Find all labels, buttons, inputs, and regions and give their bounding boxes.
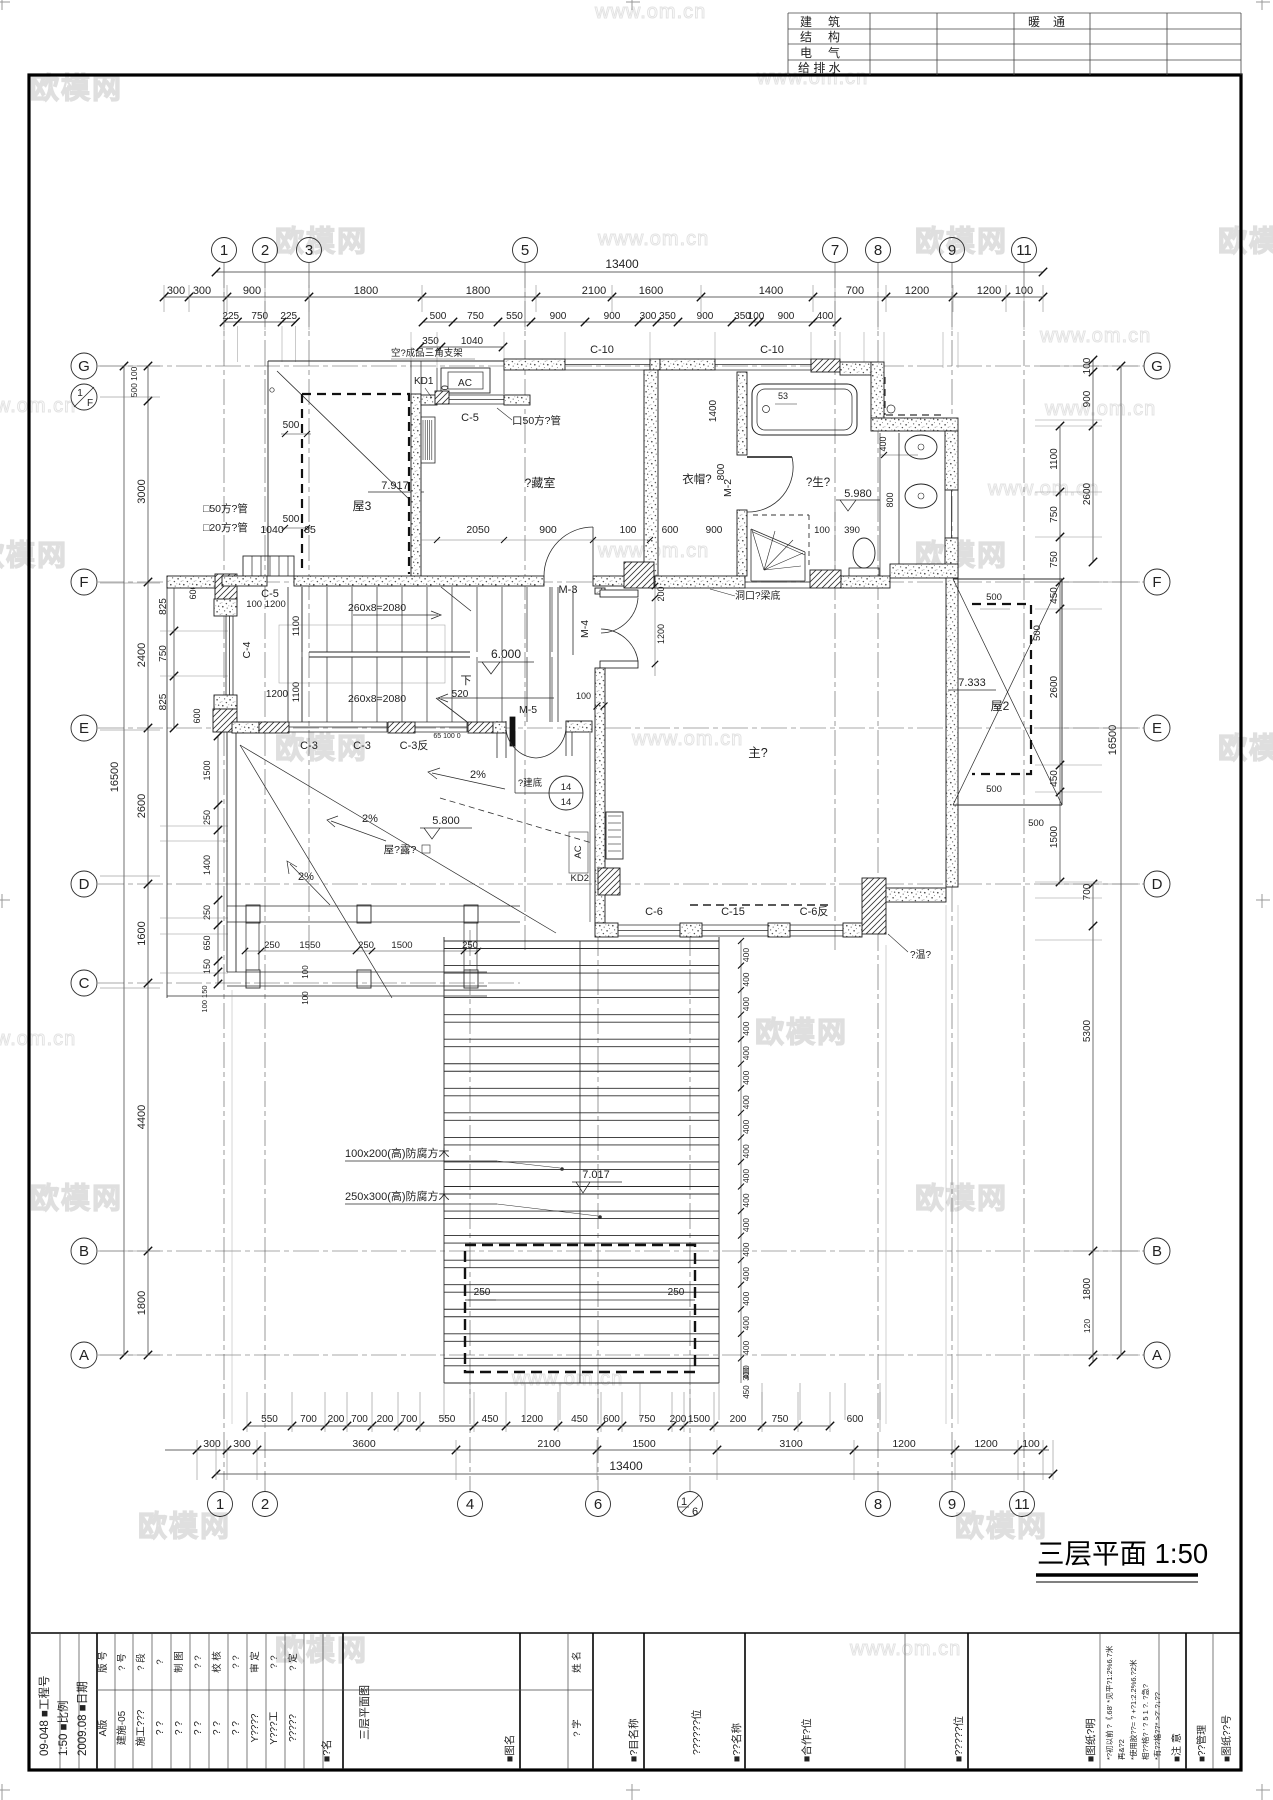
svg-text:9: 9	[948, 242, 956, 259]
svg-text:www.om.cn: www.om.cn	[1044, 398, 1156, 420]
svg-text:2100: 2100	[582, 285, 606, 297]
svg-text:??????位: ??????位	[690, 1709, 703, 1755]
slope arrows and labels	[432, 773, 505, 789]
pier at corridor junction	[624, 562, 654, 588]
svg-text:? ?: ? ?	[193, 1655, 204, 1668]
svg-text:8: 8	[874, 1496, 882, 1513]
svg-text:1:50 ■比例: 1:50 ■比例	[56, 1700, 70, 1756]
svg-text:1100: 1100	[1049, 448, 1060, 470]
svg-text:1100: 1100	[291, 616, 302, 636]
svg-text:7.333: 7.333	[958, 677, 986, 689]
left detail chain	[173, 582, 175, 728]
svg-text:洞口?梁底: 洞口?梁底	[735, 589, 781, 602]
deck 400 dimension chain	[740, 940, 742, 1383]
svg-text:300: 300	[233, 1438, 251, 1450]
svg-text:400: 400	[741, 1144, 751, 1158]
svg-text:? 号: ? 号	[117, 1653, 128, 1670]
svg-text:欧模网: 欧模网	[138, 1510, 231, 1543]
bay lower spandrel	[214, 695, 237, 709]
terrace inner corner lines	[514, 731, 516, 793]
dashed line south	[690, 904, 830, 906]
svg-text:? ?: ? ?	[193, 1721, 204, 1735]
svg-text:500: 500	[986, 592, 1002, 603]
svg-text:390: 390	[844, 525, 860, 536]
basins	[905, 435, 937, 459]
svg-text:100 150: 100 150	[200, 985, 209, 1012]
svg-text:250x300(高)防腐方木: 250x300(高)防腐方木	[345, 1189, 450, 1203]
svg-text:09-048 ■工程号: 09-048 ■工程号	[38, 1676, 51, 1756]
svg-text:■?目名称: ■?目名称	[627, 1718, 640, 1762]
svg-text:225: 225	[280, 311, 297, 322]
shower dashed opening	[753, 514, 809, 516]
bottom dimension detail row	[247, 1425, 830, 1427]
upper band wall with C-10 window left	[504, 359, 565, 370]
svg-text:65 100 0: 65 100 0	[433, 733, 460, 740]
axis bubble 1/6 bottom	[678, 1492, 703, 1517]
svg-text:250: 250	[202, 905, 212, 920]
svg-text:550: 550	[261, 1414, 278, 1425]
bay upper spandrel	[214, 599, 237, 616]
master south wall east段	[886, 888, 946, 902]
svg-text:KD2: KD2	[571, 873, 589, 884]
svg-text:C-15: C-15	[721, 906, 745, 918]
svg-text:400: 400	[741, 1218, 751, 1232]
stair break line	[441, 587, 471, 611]
svg-text:13400: 13400	[609, 1459, 643, 1473]
svg-text:筑: 筑	[828, 14, 840, 29]
svg-text:M-5: M-5	[519, 704, 537, 716]
svg-text:2600: 2600	[1082, 482, 1093, 505]
AC unit KD2	[606, 812, 623, 859]
svg-text:欧模网: 欧模网	[1218, 732, 1273, 765]
svg-text:85: 85	[304, 524, 316, 536]
svg-text:结: 结	[800, 30, 812, 44]
master west wall upper	[595, 588, 605, 594]
left storey dimension chain	[147, 366, 149, 1355]
svg-text:B: B	[1152, 1243, 1162, 1260]
svg-text:100: 100	[748, 311, 765, 322]
basin room east wall	[945, 431, 958, 490]
svg-text:13400: 13400	[605, 257, 639, 271]
svg-text:1500: 1500	[391, 940, 412, 951]
svg-text:200: 200	[328, 1414, 345, 1425]
axis bubbles top	[212, 238, 237, 263]
M-4 dims 200 1200	[654, 580, 656, 676]
row2 extension stubs	[223, 326, 225, 362]
svg-text:给 排 水: 给 排 水	[798, 61, 841, 75]
roof terrace 2 dashed rect	[972, 604, 1031, 774]
svg-text:550: 550	[439, 1414, 456, 1425]
svg-text:欧模网: 欧模网	[955, 1510, 1048, 1543]
svg-text:A: A	[79, 1347, 89, 1364]
svg-text:750: 750	[1049, 551, 1060, 568]
svg-text:欧模网: 欧模网	[1218, 225, 1273, 258]
svg-text:550: 550	[506, 311, 523, 322]
svg-text:■注 意: ■注 意	[1170, 1733, 1183, 1762]
svg-text:5: 5	[521, 242, 529, 259]
svg-text:260x8=2080: 260x8=2080	[348, 602, 406, 614]
svg-text:400: 400	[741, 1070, 751, 1084]
svg-text:C: C	[79, 975, 90, 992]
svg-text:400: 400	[741, 1340, 751, 1354]
top wall extension stubs	[410, 332, 412, 368]
svg-text:250: 250	[202, 810, 212, 825]
svg-text:屋2: 屋2	[991, 699, 1010, 713]
svg-text:C-6: C-6	[645, 906, 663, 918]
svg-text:400: 400	[741, 1021, 751, 1035]
stairwell side line	[572, 587, 574, 655]
svg-text:400: 400	[741, 948, 751, 962]
svg-text:AC: AC	[573, 845, 584, 858]
svg-text:通: 通	[1053, 15, 1065, 29]
svg-text:11: 11	[1014, 1496, 1030, 1513]
svg-text:400: 400	[741, 1169, 751, 1183]
svg-text:欧模网: 欧模网	[0, 539, 68, 572]
svg-text:C-3: C-3	[300, 740, 318, 752]
bottom dimension row 2	[165, 1449, 1049, 1451]
top dimension row 1	[164, 296, 1043, 298]
svg-text:6: 6	[594, 1496, 602, 1513]
svg-text:■??名称: ■??名称	[730, 1722, 743, 1762]
stair right boundary	[549, 587, 551, 722]
svg-text:*使用胶??= ? +?1:2.2%6.?2米: *使用胶??= ? +?1:2.2%6.?2米	[1128, 1659, 1138, 1760]
svg-text:700: 700	[351, 1414, 368, 1425]
svg-text:400: 400	[741, 997, 751, 1011]
svg-text:350: 350	[422, 336, 439, 347]
terrace parapet upper band	[227, 905, 520, 907]
door M-4 double	[600, 590, 638, 597]
svg-text:2: 2	[261, 1496, 269, 1513]
svg-text:C-3反: C-3反	[400, 739, 429, 752]
section marker 14/14	[549, 776, 583, 810]
svg-text:? 字: ? 字	[571, 1719, 583, 1736]
AC unit on bracket	[441, 368, 490, 393]
bay pier upper	[215, 574, 237, 602]
svg-text:建: 建	[800, 15, 812, 29]
svg-text:F: F	[1152, 574, 1161, 591]
svg-text:200: 200	[730, 1414, 747, 1425]
svg-text:■图纸??号: ■图纸??号	[1220, 1715, 1233, 1762]
svg-text:□50方?管: □50方?管	[203, 502, 248, 515]
svg-text:Y???工: Y???工	[269, 1711, 280, 1744]
svg-text:3000: 3000	[136, 479, 148, 503]
svg-text:5.800: 5.800	[432, 815, 460, 827]
svg-text:1500: 1500	[688, 1414, 711, 1425]
svg-text:1800: 1800	[466, 285, 490, 297]
svg-text:? 段: ? 段	[135, 1653, 147, 1671]
plan bottom extension stubs	[443, 1383, 445, 1420]
svg-text:1100: 1100	[291, 682, 302, 702]
right detail chain	[1059, 426, 1061, 882]
svg-text:? ?: ? ?	[155, 1721, 166, 1735]
svg-text:C-4: C-4	[241, 641, 253, 658]
svg-text:?: ?	[155, 1659, 166, 1664]
svg-text:2400: 2400	[136, 643, 148, 667]
terrace eave line	[167, 995, 487, 997]
svg-text:E: E	[79, 720, 89, 737]
svg-text:500: 500	[986, 784, 1002, 795]
svg-text:?温?: ?温?	[910, 949, 932, 961]
svg-text:100: 100	[301, 965, 310, 979]
svg-text:校 核: 校 核	[211, 1651, 223, 1673]
svg-text:制 图: 制 图	[173, 1651, 185, 1673]
svg-text:5.980: 5.980	[844, 488, 872, 500]
svg-text:100: 100	[301, 991, 310, 1005]
svg-text:100: 100	[1022, 1438, 1040, 1450]
svg-text:450: 450	[742, 1385, 751, 1399]
svg-text:800: 800	[885, 492, 895, 507]
KD1 block	[435, 391, 449, 404]
svg-text:www.om.cn: www.om.cn	[0, 395, 76, 417]
svg-text:D: D	[79, 876, 90, 893]
svg-text:2%: 2%	[298, 871, 314, 883]
svg-text:欧模网: 欧模网	[30, 72, 123, 105]
svg-text:1200: 1200	[892, 1438, 916, 1450]
svg-text:450: 450	[482, 1414, 499, 1425]
svg-text:□20方?管: □20方?管	[203, 521, 248, 534]
svg-text:口50方?管: 口50方?管	[512, 414, 561, 427]
svg-text:Y????: Y????	[250, 1713, 261, 1742]
svg-text:屋3: 屋3	[353, 499, 372, 513]
svg-text:?建底: ?建底	[518, 777, 543, 789]
svg-text:400: 400	[741, 1046, 751, 1060]
svg-text:700: 700	[401, 1414, 418, 1425]
svg-text:1: 1	[681, 1496, 687, 1508]
svg-text:2600: 2600	[1049, 675, 1060, 698]
svg-text:650: 650	[202, 935, 212, 950]
svg-text:500 100: 500 100	[129, 366, 139, 397]
svg-text:www.om.cn: www.om.cn	[631, 728, 743, 750]
right extension lines	[1040, 365, 1140, 367]
svg-text:? 定: ? 定	[287, 1653, 299, 1671]
svg-text:电: 电	[800, 46, 812, 60]
top dimension row 2	[224, 321, 296, 323]
svg-text:C-3: C-3	[353, 740, 371, 752]
stair landing outline	[279, 625, 445, 683]
tub room east wall	[871, 362, 884, 418]
drawing header table	[788, 12, 1241, 14]
svg-text:主?: 主?	[748, 746, 768, 760]
stair direction arrows	[353, 614, 438, 616]
svg-text:11: 11	[1016, 242, 1032, 259]
svg-text:500: 500	[283, 420, 300, 431]
svg-text:1500: 1500	[1049, 825, 1060, 848]
svg-text:250: 250	[462, 940, 478, 951]
svg-text:AC: AC	[458, 378, 472, 389]
stair left boundary	[287, 587, 289, 722]
svg-text:250: 250	[358, 940, 374, 951]
svg-text:16500: 16500	[109, 762, 121, 793]
svg-text:250: 250	[474, 1287, 491, 1298]
svg-text:700: 700	[846, 285, 864, 297]
bottom extension lines	[246, 1392, 248, 1432]
svg-text:1400: 1400	[708, 399, 719, 422]
svg-text:C-10: C-10	[590, 344, 614, 356]
svg-text:520: 520	[452, 689, 469, 700]
stairs lower flight treads	[301, 657, 303, 722]
svg-text:1550: 1550	[299, 940, 320, 951]
svg-text:再&?2: 再&?2	[1117, 1739, 1126, 1760]
svg-text:750: 750	[639, 1414, 656, 1425]
left wall below E	[226, 732, 228, 972]
svg-text:100: 100	[576, 691, 591, 701]
svg-text:750: 750	[772, 1414, 789, 1425]
svg-text:*有??格??* >?' ?↓??: *有??格??* >?' ?↓??	[1152, 1692, 1162, 1760]
right second chain	[1092, 360, 1094, 562]
svg-text:审 定: 审 定	[249, 1651, 261, 1673]
bottom overall dimension 13400	[216, 1473, 1053, 1475]
svg-text:1200: 1200	[656, 624, 666, 644]
svg-text:? ?: ? ?	[269, 1655, 280, 1668]
stairs upper flight treads	[301, 587, 303, 652]
deck pergola dashed rect	[465, 1245, 695, 1372]
svg-text:A: A	[1152, 1347, 1162, 1364]
toilet	[853, 538, 875, 568]
svg-text:100x200(高)防腐方木: 100x200(高)防腐方木	[345, 1146, 450, 1160]
svg-text:250: 250	[264, 940, 280, 951]
svg-text:1200: 1200	[905, 285, 929, 297]
svg-text:?????: ?????	[288, 1714, 299, 1742]
svg-text:姓 名: 姓 名	[571, 1651, 583, 1673]
long extension line below terrace SW	[231, 990, 233, 1424]
svg-text:8: 8	[874, 242, 882, 259]
svg-text:53: 53	[778, 391, 788, 401]
storage room north wall with C-5 window	[421, 395, 437, 405]
svg-text:7.017: 7.017	[582, 1169, 610, 1181]
deck outline	[443, 937, 445, 1383]
svg-text:2%: 2%	[470, 769, 486, 781]
axis bubble 1/F left	[71, 384, 97, 410]
svg-text:1040: 1040	[461, 336, 484, 347]
svg-text:2600: 2600	[136, 794, 148, 818]
roof terrace 2 diagonals	[953, 579, 1062, 805]
axis bubbles right	[1144, 353, 1170, 379]
svg-text:三层平面图: 三层平面图	[358, 1685, 371, 1740]
svg-text:D: D	[1152, 876, 1163, 893]
left outer vertical edge line	[166, 576, 168, 998]
svg-text:200: 200	[656, 586, 666, 601]
svg-text:400: 400	[878, 436, 888, 451]
svg-text:3: 3	[305, 242, 313, 259]
stair hall walls	[222, 576, 267, 586]
roof3 bay window C-5	[243, 556, 294, 576]
svg-text:施工???: 施工???	[134, 1709, 147, 1746]
svg-text:4400: 4400	[136, 1105, 148, 1129]
frame corner marks	[0, 1, 10, 3]
storage room west wall	[411, 394, 421, 586]
svg-text:下: 下	[461, 675, 472, 687]
svg-text:欧模网: 欧模网	[30, 1182, 123, 1215]
svg-text:7: 7	[831, 242, 839, 259]
svg-text:G: G	[1151, 358, 1163, 375]
svg-text:300: 300	[167, 285, 185, 297]
svg-text:1200: 1200	[974, 1438, 998, 1450]
svg-text:2100: 2100	[537, 1438, 561, 1450]
svg-text:? ?: ? ?	[174, 1721, 185, 1735]
svg-text:600: 600	[603, 1414, 620, 1425]
svg-text:A版: A版	[96, 1720, 109, 1737]
svg-text:450: 450	[571, 1414, 588, 1425]
master east wall	[946, 578, 958, 887]
NE dashed outline	[886, 414, 943, 416]
svg-text:400: 400	[741, 1119, 751, 1133]
svg-text:1400: 1400	[759, 285, 783, 297]
svg-text:900: 900	[550, 311, 567, 322]
svg-text:900: 900	[539, 524, 557, 536]
door M-5 double in south wall	[496, 721, 498, 758]
svg-text:750: 750	[251, 311, 268, 322]
svg-text:■??管理: ■??管理	[1195, 1725, 1208, 1762]
svg-text:1600: 1600	[136, 921, 148, 945]
svg-text:225: 225	[222, 311, 239, 322]
svg-text:400: 400	[817, 311, 834, 322]
svg-text:1400: 1400	[202, 855, 212, 875]
svg-text:M-2: M-2	[722, 479, 734, 497]
door M-3	[544, 527, 593, 576]
svg-text:700: 700	[300, 1414, 317, 1425]
svg-text:800: 800	[716, 463, 727, 480]
title block strip	[31, 1632, 1241, 1634]
svg-text:500: 500	[1032, 625, 1043, 641]
svg-text:欧模网: 欧模网	[915, 1182, 1008, 1215]
terrace parapet lower band	[227, 971, 487, 973]
pipe dashed line to AC	[440, 798, 592, 843]
vertical axis lines	[223, 262, 225, 1491]
svg-text:1800: 1800	[1082, 1277, 1093, 1300]
bath south wall	[655, 576, 745, 588]
svg-text:6.000: 6.000	[491, 647, 521, 661]
left extension lines	[100, 365, 160, 367]
svg-text:www.om.cn: www.om.cn	[594, 1, 706, 23]
svg-text:2050: 2050	[466, 524, 490, 536]
svg-text:屋?露?: 屋?露?	[384, 844, 417, 856]
svg-text:www.om.cn: www.om.cn	[0, 1028, 76, 1050]
svg-text:350: 350	[659, 311, 676, 322]
svg-text:2: 2	[261, 242, 269, 259]
svg-text:300: 300	[640, 311, 657, 322]
storage radiator	[421, 417, 435, 463]
svg-text:1200: 1200	[977, 285, 1001, 297]
svg-text:400: 400	[741, 1193, 751, 1207]
svg-text:1800: 1800	[136, 1291, 148, 1315]
axis bubbles bottom	[208, 1492, 233, 1517]
svg-text:KD1: KD1	[414, 376, 434, 387]
svg-text:900: 900	[706, 525, 723, 536]
svg-text:C-10: C-10	[760, 344, 784, 356]
svg-text:400: 400	[741, 1316, 751, 1330]
south-east pier	[862, 878, 886, 934]
svg-text:500: 500	[283, 514, 300, 525]
svg-text:9: 9	[948, 1496, 956, 1513]
svg-text:14: 14	[561, 782, 572, 793]
title block version cells	[97, 1689, 593, 1691]
svg-text:构: 构	[828, 29, 840, 44]
left bay window C-4	[225, 616, 227, 695]
svg-text:3100: 3100	[779, 1438, 803, 1450]
svg-text:14: 14	[561, 797, 572, 808]
svg-text:7.917: 7.917	[381, 480, 409, 492]
svg-text:900: 900	[604, 311, 621, 322]
svg-text:300: 300	[742, 1367, 751, 1381]
master north wall	[890, 564, 958, 578]
deck mid joint line	[579, 941, 581, 1383]
svg-text:250: 250	[668, 1287, 685, 1298]
svg-text:200: 200	[377, 1414, 394, 1425]
svg-text:500: 500	[1028, 818, 1044, 829]
parapet post connectors	[245, 922, 247, 970]
svg-text:G: G	[78, 358, 90, 375]
svg-text:E: E	[1152, 720, 1162, 737]
